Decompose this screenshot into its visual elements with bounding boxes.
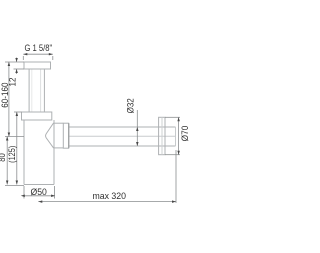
svg-text:max 320: max 320 (92, 191, 126, 201)
svg-text:G 1 5/8": G 1 5/8" (24, 42, 52, 53)
svg-text:Ø70: Ø70 (180, 126, 190, 142)
svg-text:12: 12 (7, 77, 18, 86)
svg-text:Ø50: Ø50 (30, 187, 46, 197)
svg-text:80: 80 (0, 153, 7, 162)
svg-text:Ø32: Ø32 (125, 98, 136, 113)
svg-text:(125): (125) (6, 146, 17, 163)
